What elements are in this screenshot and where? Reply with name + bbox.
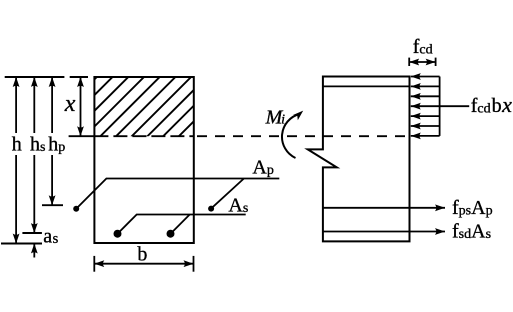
svg-text:b: b xyxy=(137,244,147,266)
svg-text:fcdbx: fcdbx xyxy=(471,92,512,117)
svg-text:x: x xyxy=(64,91,76,117)
svg-text:Mi: Mi xyxy=(265,107,285,129)
svg-text:fsdAs: fsdAs xyxy=(452,220,491,242)
svg-text:h: h xyxy=(12,134,22,156)
